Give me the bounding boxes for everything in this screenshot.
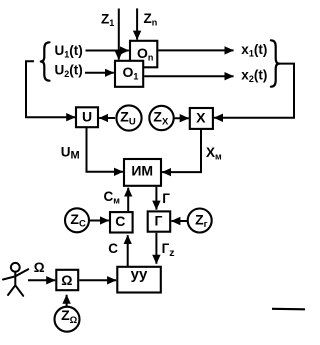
svg-text:Ω: Ω [61,272,72,288]
svg-text:ИМ: ИМ [131,162,153,178]
svg-text:U2(t): U2(t) [55,62,83,79]
svg-text:C: C [108,241,118,256]
svg-text:x2(t): x2(t) [241,68,267,85]
svg-text:x1(t): x1(t) [241,42,267,59]
svg-text:U1(t): U1(t) [55,43,83,60]
svg-text:уу: уу [131,266,148,283]
svg-text:X: X [196,109,206,125]
svg-text:Г: Г [162,191,170,206]
svg-text:Г: Г [155,212,163,228]
svg-text:U: U [82,108,92,124]
svg-text:Ω: Ω [34,260,45,275]
svg-text:C: C [115,213,125,229]
